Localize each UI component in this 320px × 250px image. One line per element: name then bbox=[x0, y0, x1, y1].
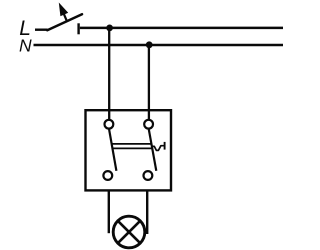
wire L drop to box bbox=[108, 28, 110, 120]
wire L feed stub bbox=[35, 29, 48, 31]
node L junction bbox=[106, 25, 113, 32]
wire lamp right bbox=[146, 190, 148, 234]
lamp E1 bbox=[113, 216, 145, 248]
switch S1 fixed contact bar bbox=[77, 23, 79, 34]
switch S1 blade bbox=[47, 14, 82, 30]
terminal bottom-left bbox=[103, 171, 112, 180]
wire N line bbox=[34, 44, 284, 47]
svg-text:N: N bbox=[19, 36, 32, 56]
switch pole left blade bbox=[109, 129, 116, 171]
terminal top-left bbox=[105, 120, 114, 129]
actuator spring wave bbox=[151, 142, 164, 151]
wire lamp left bbox=[108, 190, 110, 233]
terminal bottom-right bbox=[144, 171, 153, 180]
mechanical coupling bars bbox=[112, 144, 153, 149]
node N junction bbox=[146, 41, 153, 48]
switch pole right blade bbox=[149, 129, 157, 171]
wire L line bbox=[80, 27, 283, 30]
switch S1 actuator arrow bbox=[59, 3, 68, 21]
wire N drop to box bbox=[148, 45, 150, 120]
terminal top-right bbox=[144, 120, 153, 129]
switch unit box bbox=[86, 110, 172, 190]
